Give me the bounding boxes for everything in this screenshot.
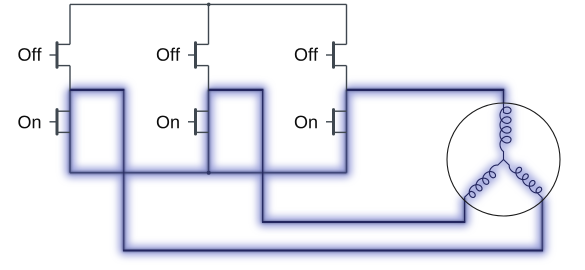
- transistor Q3 (Off) gate lead: [188, 54, 196, 56]
- transistor Q6 (On) gate lead: [326, 121, 334, 123]
- motor circle M1: [447, 103, 560, 216]
- wire leg 2 vertical: [208, 4, 210, 91]
- transistor Q4 (On) source lead: [196, 131, 209, 133]
- transistor Q6 (On) bar: [332, 110, 335, 134]
- label On (leg 3): [295, 116, 317, 129]
- transistor Q4 (On) bar: [194, 110, 197, 134]
- transistor Q2 (On) source lead: [57, 131, 70, 133]
- transistor Q1 (Off) gate lead: [50, 54, 58, 56]
- transistor Q3 (Off) bar: [194, 43, 197, 67]
- motor winding lower-left: [465, 160, 504, 198]
- transistor Q6 (On) drain lead: [334, 110, 347, 112]
- transistor Q1 (Off) drain lead: [57, 43, 70, 45]
- transistor Q3 (Off) drain lead: [196, 43, 209, 45]
- glow light halo of current path: [70, 90, 542, 251]
- motor winding lower-right: [504, 160, 543, 198]
- node ground rail junction: [207, 171, 211, 175]
- transistor Q5 (Off) drain lead: [334, 43, 347, 45]
- transistor Q2 (On) gate lead: [50, 121, 58, 123]
- label On (leg 1): [18, 116, 40, 129]
- label Off (leg 3): [295, 48, 318, 61]
- label Off (leg 2): [157, 48, 180, 61]
- wire highlighted leg segments (soft): [70, 90, 347, 173]
- transistor Q4 (On) drain lead: [196, 110, 209, 112]
- transistor Q2 (On) drain lead: [57, 110, 70, 112]
- transistor Q5 (Off) gate lead: [326, 54, 334, 56]
- wire phase B route: [209, 90, 465, 222]
- wire leg 1 vertical: [69, 4, 71, 91]
- wire lower route horizontals overdraw: [123, 222, 543, 251]
- transistor Q3 (Off) source lead: [196, 65, 209, 67]
- transistor Q1 (Off) bar: [56, 43, 59, 67]
- label Off (leg 1): [18, 48, 41, 61]
- label On (leg 2): [157, 116, 179, 129]
- motor winding top: [500, 104, 511, 160]
- wire leg 3 vertical: [346, 4, 348, 91]
- wire top bus: [70, 3, 347, 5]
- transistor Q5 (Off) source lead: [334, 65, 347, 67]
- glow halo of motor windings: [465, 104, 542, 198]
- glow dark core of current path: [70, 90, 542, 251]
- transistor Q2 (On) bar: [56, 110, 59, 134]
- wire phase A route (soft verticals): [70, 90, 542, 251]
- wire phase C route: [347, 90, 504, 104]
- transistor Q4 (On) gate lead: [188, 121, 196, 123]
- transistor Q1 (Off) source lead: [57, 65, 70, 67]
- transistor Q6 (On) source lead: [334, 131, 347, 133]
- node top bus junction: [207, 3, 211, 7]
- transistor Q5 (Off) bar: [332, 43, 335, 67]
- wire phase horizontals overdraw: [70, 89, 504, 91]
- wire ground rail (soft): [70, 172, 347, 174]
